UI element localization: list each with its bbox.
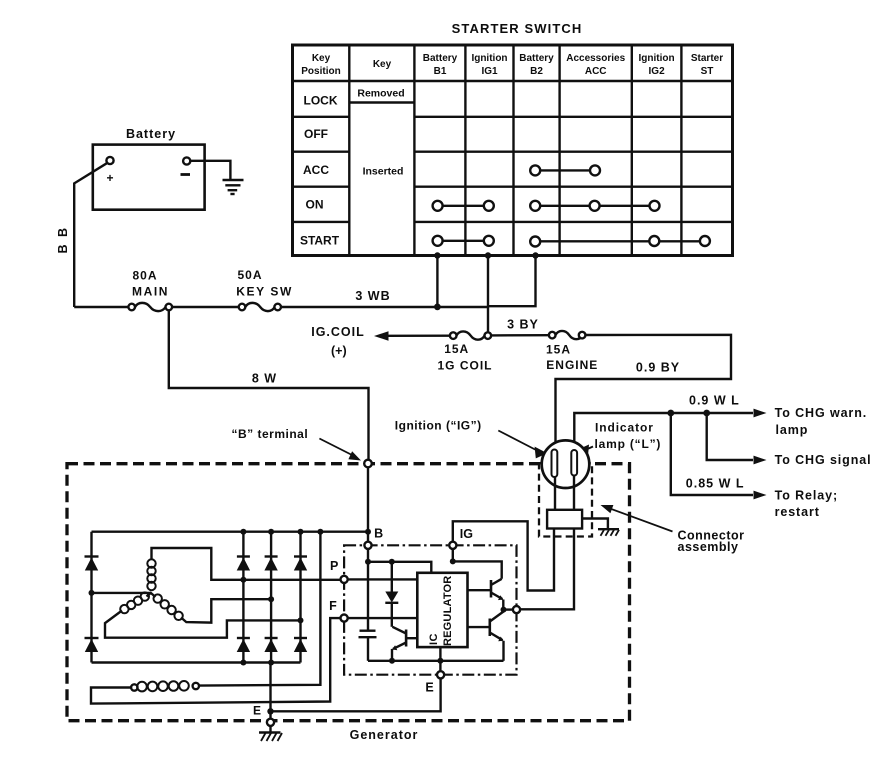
zener diode ZD [385,562,398,627]
lamp prong right [571,450,577,476]
svg-text:F: F [329,599,337,613]
table row labels [300,88,405,248]
svg-text:Generator: Generator [350,728,419,742]
svg-text:(+): (+) [331,344,347,358]
wire lamp right prong down [573,476,575,511]
svg-text:Battery: Battery [423,53,458,64]
node B terminal on regulator [364,542,371,549]
labels To CHG warn. lamp / To CHG signal / To Relay restart [775,406,872,519]
svg-text:To Relay;: To Relay; [775,489,838,503]
wire main 3WB [74,306,128,308]
svg-text:To CHG warn.: To CHG warn. [775,406,868,420]
wire IC to E terminal [439,647,441,671]
wire B vertical bus to regulator [367,467,369,542]
svg-text:3 WB: 3 WB [355,289,390,303]
wire stator phase 2 output [105,611,301,638]
svg-text:ACC: ACC [585,66,607,77]
table contacts ACC row [530,165,600,175]
svg-text:Battery: Battery [519,53,554,64]
node phase3 tap col2 [268,596,274,602]
node phase1 tap col1 [240,577,246,583]
indicator lamp circle [542,440,590,488]
wire regulator bottom rail [368,660,504,662]
wire left prong to IG terminal [453,521,554,590]
svg-text:E: E [253,704,261,718]
node E terminal circle [267,719,274,726]
diode D8 bottom-left [85,638,99,652]
wire Y center junction [147,593,156,597]
wire bottom bus [92,661,301,663]
svg-text:ENGINE: ENGINE [546,358,598,372]
wire P lead [348,578,418,580]
node 0.9WL junctions [667,410,674,417]
svg-text:80A: 80A [132,269,157,283]
svg-text:assembly: assembly [678,540,739,554]
svg-text:IG.COIL: IG.COIL [311,325,365,339]
svg-text:8 W: 8 W [252,372,277,386]
svg-text:KEY SW: KEY SW [236,285,293,299]
fuse 15A ENGINE [546,331,598,372]
connector assembly dashed box [539,463,592,536]
svg-text:restart: restart [775,505,820,519]
node top bus junctions [240,529,371,535]
node E terminal on regulator [437,671,444,678]
label Indicator lamp ("L") with arrow [576,421,661,458]
label IG.COIL (+) [311,325,365,358]
resistor (connector assembly) [547,510,582,529]
wire IG inside regulator [453,549,502,579]
node bottom bus junctions [240,660,274,666]
node P terminal on regulator [341,576,348,583]
wire 0.9WL to CHG warn lamp [574,413,753,451]
fuse 50A KEY SW [236,268,293,311]
wire lamp left prong down through resistor [554,478,556,511]
ground (battery) [223,180,244,194]
wire output junction to terminal [504,608,514,610]
svg-text:0.85 W L: 0.85 W L [686,477,745,491]
svg-text:Key: Key [373,59,392,70]
transistor Q2 (upper right) [468,579,504,610]
wire 8W branch [169,310,369,459]
rectifier column 3 [294,532,307,663]
svg-text:B B: B B [56,226,70,254]
lamp prong left [552,450,558,478]
svg-text:ST: ST [701,66,714,77]
svg-text:IG1: IG1 [481,66,498,77]
stator coil B (lower-left) [120,592,149,613]
regulator dash-dot box [344,545,516,674]
wire right prong to regulator output [521,529,575,610]
wire E vertical below bus [269,663,271,719]
node phase2 tap col3 [298,617,304,623]
node F terminal on regulator [341,615,348,622]
table contacts ON row [433,201,660,211]
transistor Q3 (lower right) [468,612,504,661]
wire IG1 column down to fuse 15A IG COIL [487,256,489,333]
fuse 80A MAIN [128,269,172,312]
svg-text:P: P [330,559,338,573]
arrow to IG.COIL [374,331,389,340]
svg-text:MAIN: MAIN [132,285,169,299]
wire 3BY mid [491,334,549,337]
wire F lead [348,617,418,619]
wire field feed from bus [199,532,321,686]
starter switch table frame [293,45,733,256]
battery [93,127,205,210]
label Connector assembly with arrow [601,505,745,554]
wire branch to CHG signal [707,413,753,460]
node neutral tap [89,590,95,596]
wire stator phase 1 to P [152,548,341,580]
wire resistor to ground [582,519,608,529]
svg-text:Indicator: Indicator [595,421,654,435]
node output terminal on regulator [513,606,520,613]
wire B1 column to main wire [436,256,438,307]
svg-text:STARTER SWITCH: STARTER SWITCH [452,21,583,36]
wire stator phase 3 output [181,599,271,622]
field winding rotor coil [131,681,199,691]
stator coil A (vertical) [147,559,155,590]
svg-text:Removed: Removed [357,88,404,100]
svg-text:Position: Position [301,66,340,77]
svg-text:B1: B1 [434,66,447,77]
wire 3BY left [386,335,450,337]
svg-text:1G COIL: 1G COIL [437,359,492,373]
svg-text:REGULATOR: REGULATOR [442,576,454,646]
svg-text:Ignition: Ignition [639,53,675,64]
svg-text:OFF: OFF [304,127,328,141]
wire neutral to Y center [92,592,151,594]
svg-text:Battery: Battery [126,127,176,141]
svg-text:IG2: IG2 [649,66,666,77]
svg-text:Inserted: Inserted [363,166,404,178]
svg-text:0.9 BY: 0.9 BY [636,361,680,375]
wire branch 0.85WL to relay [671,413,753,495]
node E junction [267,708,273,714]
node IG terminal on regulator [449,542,456,549]
wire B2 column jog to IG1 vertical [489,256,536,307]
svg-text:3 BY: 3 BY [507,318,539,332]
svg-text:Ignition: Ignition [471,53,507,64]
svg-text:IC: IC [428,633,440,645]
node table feed dots [434,252,539,310]
svg-text:50A: 50A [237,268,262,282]
wire battery negative to ground [190,161,230,179]
rectifier column 2 [264,532,277,663]
wire left diode leg [90,532,92,663]
svg-text:E: E [425,681,433,695]
ground (generator E) [259,726,282,741]
rectifier column 1 [237,532,250,663]
label Ignition ("IG") with arrow [395,419,548,459]
diode D7 top-left [85,557,99,571]
svg-text:“B” terminal: “B” terminal [232,427,309,441]
svg-text:Key: Key [312,53,331,64]
svg-text:START: START [300,234,340,248]
svg-text:To CHG signal: To CHG signal [775,453,872,467]
wire battery positive down (B B) [74,163,107,307]
wire generator top bus [92,531,369,533]
wire field to F terminal [91,618,341,704]
svg-text:ACC: ACC [303,163,329,177]
node B terminal junction circle [364,460,372,468]
svg-text:15A: 15A [546,343,571,357]
svg-text:B: B [374,527,383,541]
IC regulator box [417,573,467,647]
transistor Q1 [392,627,417,661]
node Q2/Q3 output junction [501,607,507,613]
table header labels [301,53,723,77]
stator coil C (lower-right) [154,594,183,620]
svg-text:ON: ON [306,198,324,212]
svg-text:lamp (“L”): lamp (“L”) [595,437,662,451]
svg-text:Ignition (“IG”): Ignition (“IG”) [395,419,482,433]
wire 0.9BY [556,335,732,450]
svg-text:Accessories: Accessories [566,53,625,64]
generator dashed box [67,464,630,721]
svg-text:lamp: lamp [776,423,809,437]
svg-text:IG: IG [460,527,473,541]
svg-text:Starter: Starter [691,53,723,64]
svg-text:+: + [106,171,113,185]
capacitor C1 [359,631,377,661]
fuse 15A IG COIL [437,331,492,372]
svg-text:0.9 W L: 0.9 W L [689,394,740,408]
table contacts START row [433,236,710,247]
wire E from regulator to generator E [271,678,441,711]
svg-text:LOCK: LOCK [304,94,338,108]
ground (connector) [598,529,619,536]
wire B inside regulator [367,549,369,631]
svg-text:B2: B2 [530,66,543,77]
svg-text:15A: 15A [444,342,469,356]
label "B" terminal with arrow [232,427,362,461]
wire B to IC top [368,562,431,573]
